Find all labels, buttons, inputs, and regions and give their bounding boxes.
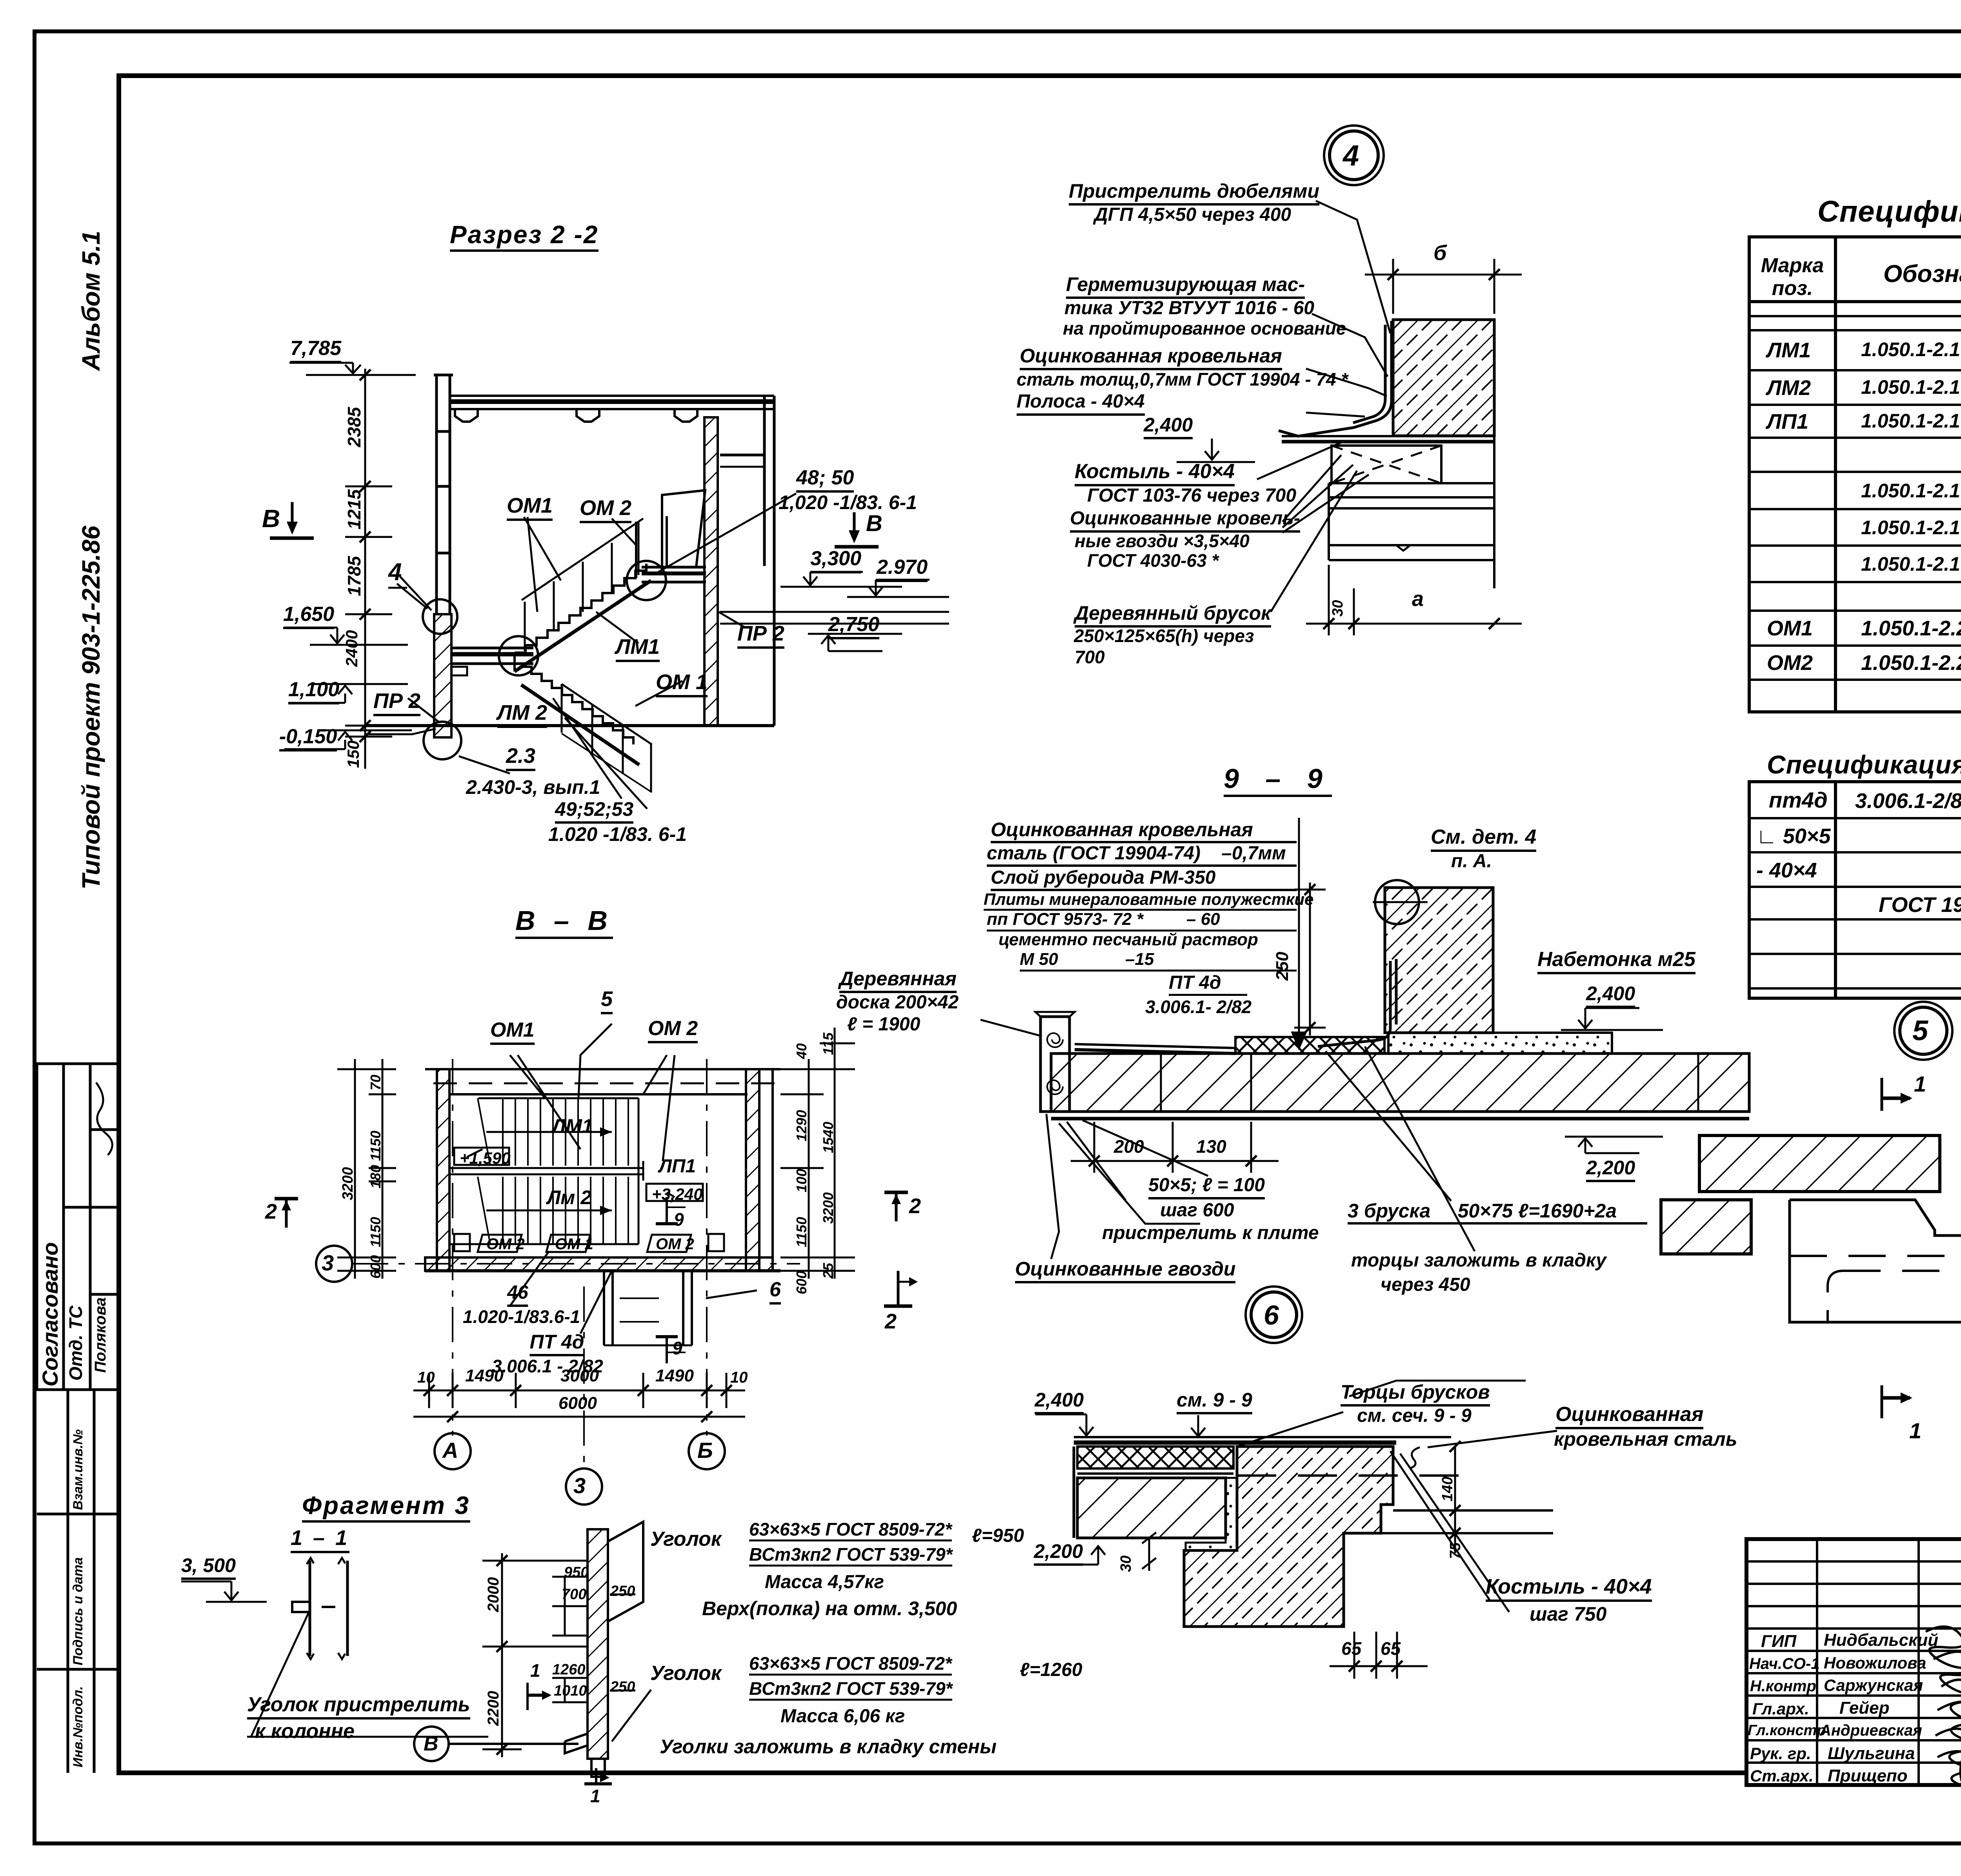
detail 4 bubble [1324, 126, 1384, 185]
left margin rotated text: Album 5.1 [78, 231, 104, 371]
mini elevation strip fragment3 [588, 1522, 643, 1759]
left margin rotated text: Tipovoy proekt [78, 526, 104, 890]
section 2 marker right plan [884, 1192, 908, 1221]
grid bubble 3 left [316, 1246, 352, 1282]
left wall hatched plan [437, 1069, 449, 1271]
dims 140 75 det6 [1450, 1441, 1461, 1553]
leader ugolok2 frag3 [612, 1690, 651, 1741]
spec table 1 grid (lestnitsa) [1749, 237, 1961, 712]
ruberoid dash line det6 [1237, 1474, 1469, 1477]
detail 4 marker [388, 560, 407, 589]
detail circle on wall [1373, 880, 1428, 924]
leader lines razrez [400, 493, 796, 809]
bottom dims 200 130 [1071, 1122, 1279, 1173]
table 1 header texts [1761, 254, 1824, 300]
left margin: soglasovano table [37, 1064, 119, 1390]
lower landing plate hatched (det5) [1661, 1200, 1751, 1254]
plan bottom dims [413, 1373, 745, 1422]
stair treads upper flight LM1 [478, 1098, 639, 1166]
detail 6 bubble [1246, 1286, 1302, 1343]
dims 65 65 det6 [1330, 1632, 1428, 1679]
nabetonka dotted [1388, 1033, 1612, 1054]
level 3.500 [181, 1581, 267, 1602]
level 2.400 right [1561, 1008, 1663, 1030]
wall above (brick hatched) [1385, 888, 1493, 1033]
layers below [1329, 436, 1494, 588]
B bubble frag3 [414, 1727, 578, 1761]
plan left dim chains [337, 1059, 396, 1279]
leader lines detail4 [1257, 201, 1390, 612]
section B arrow right [835, 512, 879, 547]
wood block box with cross [1332, 446, 1441, 483]
right outer wall face lines [720, 396, 774, 726]
right top ref [796, 468, 854, 493]
railing post OM2 at landing [636, 516, 667, 578]
table 2 rows [1769, 789, 1828, 811]
left wall hatched column [434, 614, 451, 737]
level mark 2.750 right [808, 634, 902, 651]
mid rail double line [449, 1161, 643, 1181]
bottom refs [506, 745, 535, 771]
level 2.200 det6 [1045, 1546, 1105, 1565]
plan right dim values [795, 1043, 809, 1059]
bottom wall hatched plan [425, 1257, 780, 1271]
section marker 1 top [1882, 1078, 1912, 1111]
left wall upper part [434, 375, 453, 614]
column fragment3 [292, 1558, 347, 1659]
spec table 2 grid (tambur) [1749, 782, 1961, 998]
vestibule below plan [604, 1271, 692, 1345]
brick wall det6 [1184, 1447, 1393, 1627]
signatures in title block [1926, 1627, 1961, 1789]
right wall hatched plan [746, 1069, 773, 1271]
landing edge line [449, 1098, 639, 1244]
slab hatched det6 [1074, 1447, 1226, 1538]
section 1 markers frag3 [528, 1683, 612, 1784]
level 2.200 right [1565, 1137, 1663, 1153]
frag3 dim chains [482, 1553, 635, 1757]
leaders plan labels [467, 1024, 757, 1334]
plan right dim chains [780, 1028, 855, 1279]
railing OM1 on lower flight [562, 684, 652, 792]
dim chain rotated values [345, 407, 363, 447]
bottom bracket on strip [565, 1734, 605, 1777]
floor line ground [365, 726, 774, 734]
sidebar labels [71, 1429, 85, 1510]
leaders det6 [1239, 1381, 1557, 1612]
node circles [423, 561, 666, 759]
grid bubble 3 bottom [566, 1468, 602, 1505]
table 1 rows [1767, 340, 1811, 361]
plan left dim values [369, 1075, 383, 1090]
level mark 3.300 right [780, 572, 902, 587]
level mark 2.970 right [720, 580, 949, 624]
+3.240 box [646, 1184, 703, 1201]
roof line det6 [1074, 1437, 1451, 1443]
section B arrow left [270, 502, 314, 538]
section 2 marker left plan [275, 1199, 298, 1228]
stair flight LM1 (lower-left up to right) [515, 564, 651, 671]
top wall line [425, 1069, 780, 1094]
main slab hatched [1051, 1054, 1749, 1119]
level mark 1.650 [284, 628, 408, 645]
stair treads lower flight LM2 [478, 1177, 639, 1244]
+1.590 box [454, 1148, 509, 1165]
detail 5 bubble [1894, 1002, 1952, 1060]
steel flashing on wall face [1318, 959, 1396, 1046]
railing OM1 on upper flight [522, 519, 643, 651]
ceiling slab with ribs [450, 396, 774, 422]
dim 30 det6 [1142, 1532, 1156, 1571]
level mark -0.150 [284, 730, 412, 749]
level mark 7.785 [289, 363, 416, 375]
flight direction arrows [486, 1127, 612, 1215]
stair flight LM2 (mid-left down to right) [521, 667, 639, 765]
B markers [262, 506, 280, 531]
grid bubble A [435, 1433, 471, 1469]
level mark 1.100 [288, 684, 408, 703]
insulation crosshatch det6 [1077, 1447, 1233, 1474]
level 2.400 det6 [1035, 1414, 1093, 1436]
landing upper right [642, 567, 706, 582]
roof surface lines [1282, 436, 1494, 442]
left margin: lower sidebar cells [37, 1390, 119, 1773]
section title [450, 222, 598, 252]
level values [290, 338, 341, 363]
mid landing PR2 left [451, 648, 533, 675]
parapet steel profile [1279, 321, 1392, 436]
dim chain vertical left [345, 369, 392, 769]
b dimension over wall [1365, 259, 1522, 314]
soglasovano labels [39, 1242, 61, 1387]
dim 250 near wall [1294, 883, 1326, 1035]
right floor lines det6 [1381, 1510, 1553, 1533]
bottom dims 30 / a [1306, 565, 1522, 635]
door opening upper right [662, 490, 705, 567]
level mark 2.400 det4 [1177, 439, 1255, 462]
roof buildup crosshatch strip [1075, 1037, 1384, 1054]
bottom OM boxes [454, 1234, 724, 1252]
left wooden board with end grain [1035, 1012, 1075, 1112]
masonry wall hatched [1393, 320, 1494, 436]
march plate outline (det5) [1790, 1200, 1961, 1322]
grid bubble B (Б) [689, 1433, 725, 1469]
leaders bottom 9-9 [980, 1020, 1475, 1259]
spec table 2 title [1767, 751, 1961, 777]
grid axis lines [353, 1059, 800, 1469]
spec table 1 title [1817, 197, 1961, 227]
layer leader vertical with arrow [1292, 818, 1306, 1048]
section 9 markers plan [656, 1197, 686, 1363]
element labels [507, 495, 553, 521]
right wall hatched [704, 417, 718, 726]
section marker 2 bottom [884, 1271, 918, 1306]
title block grid [1746, 1539, 1961, 1785]
circle marker 4 leader [397, 584, 427, 609]
leader ugolok pristrelit [247, 1610, 488, 1737]
dotted concrete cup det6 [1186, 1478, 1237, 1550]
section marker 1 bottom [1882, 1385, 1912, 1418]
upper landing plate hatched (det5) [1699, 1135, 1940, 1192]
signature squiggle in soglasovano [96, 1083, 112, 1155]
sm 9-9 arrow det6 [1191, 1415, 1205, 1436]
